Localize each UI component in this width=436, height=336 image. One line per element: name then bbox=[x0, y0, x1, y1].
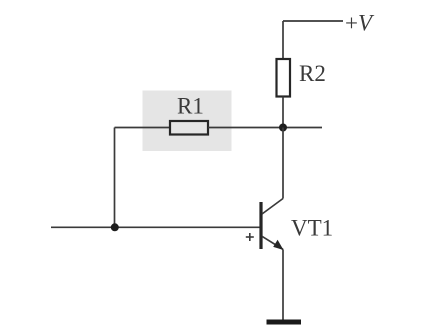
svg-text:R2: R2 bbox=[299, 61, 326, 86]
svg-text:R1: R1 bbox=[177, 94, 204, 119]
wire: +V down to R2 top bbox=[282, 21, 284, 59]
svg-text:VT1: VT1 bbox=[291, 216, 333, 241]
node: collector junction dot bbox=[279, 124, 287, 132]
resistor R2 bbox=[277, 59, 291, 97]
transistor VT1 bbox=[261, 199, 284, 251]
wire: +V rail horizontal bbox=[283, 20, 343, 22]
wire: R1 right to collector node and stub beyond bbox=[208, 127, 322, 129]
wire: left vertical from R1 line down to base node bbox=[114, 128, 116, 228]
resistor R1 bbox=[170, 121, 208, 135]
wire: R2 bottom to collector node bbox=[282, 97, 284, 128]
ground bbox=[267, 320, 302, 325]
wire: emitter down to ground bbox=[282, 249, 284, 319]
wire: collector node down to transistor collector bbox=[282, 128, 284, 199]
svg-text:+V: +V bbox=[345, 11, 375, 36]
node: base junction dot bbox=[111, 223, 119, 231]
wire: feedback horizontal left segment to R1 bbox=[115, 127, 171, 129]
highlight box around R1 bbox=[143, 91, 232, 152]
wire: base input horizontal bbox=[51, 226, 260, 228]
label + at base-emitter bbox=[246, 233, 254, 241]
